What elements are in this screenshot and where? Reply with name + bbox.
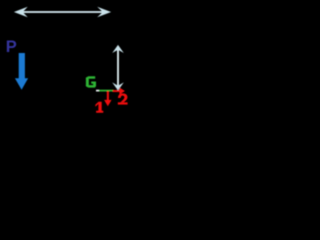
svg-text:P: P	[6, 38, 17, 56]
